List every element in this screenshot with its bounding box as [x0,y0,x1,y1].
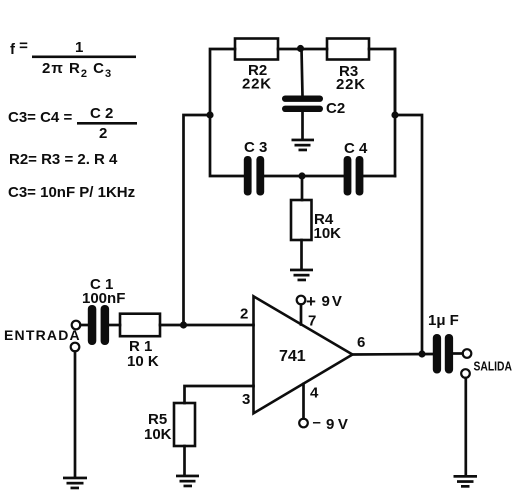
svg-text:741: 741 [279,348,306,365]
svg-text:10K: 10K [144,426,172,443]
ground R5 [176,475,199,488]
wire op-amp output to C5 [353,353,434,356]
resistor R2 [235,39,278,60]
capacitor C3 [244,156,264,196]
pin 4 wire [302,384,305,419]
svg-text:2π R2 C3: 2π R2 C3 [42,60,112,80]
capacitor C4 [344,156,364,196]
svg-text:22K: 22K [242,76,272,93]
wire salida to ground [464,378,467,476]
terminal entrada top [72,321,81,330]
svg-text:4: 4 [310,385,319,402]
terminal +9V [297,296,306,305]
svg-text:1: 1 [75,39,83,56]
terminal entrada bottom [71,343,80,352]
wire C4 to right rail [364,175,396,178]
svg-text:100nF: 100nF [82,290,125,307]
formula f = 1/(2 pi R2 C3) [10,38,136,81]
capacitor C2 [282,96,323,113]
resistor R3 [327,39,369,60]
svg-text:2: 2 [240,306,248,323]
node A junction R2/R3 [297,45,304,52]
node right tee [391,111,398,118]
svg-text:ENTRADA: ENTRADA [4,327,81,343]
wire C5 to salida [453,352,463,355]
wire R1 to op-amp pin 2 [160,324,254,327]
formula C3 = C4 = C2/2 [8,105,137,142]
node C3/C4 middle [298,172,305,179]
wire right vertical between top corner and C4 wire [394,49,397,176]
svg-text:9V: 9V [322,293,344,310]
wire R5 to ground [183,446,186,475]
terminal salida bottom [461,369,470,378]
svg-text:R2= R3 = 2. R 4: R2= R3 = 2. R 4 [9,151,118,168]
ground below C2 [292,139,315,152]
svg-text:C2: C2 [326,100,345,117]
wire R4 to ground [300,240,303,269]
wire node A down to C2 [302,49,303,96]
svg-text:10 K: 10 K [127,353,159,370]
capacitor C5 1uF [433,334,453,374]
svg-text:–: – [313,414,321,431]
svg-text:7: 7 [308,313,316,330]
resistor R4 [291,200,312,240]
svg-text:22K: 22K [336,76,366,93]
wire C1 to R1 [109,324,120,327]
terminal salida top [463,349,472,358]
resistor R5 [174,403,195,446]
wire middle node down to R4 [301,176,304,200]
svg-text:1μ F: 1μ F [428,312,459,329]
op-amp U1 741 triangle [254,296,353,413]
svg-text:SALIDA: SALIDA [474,359,513,374]
wire top-left corner to R2 [210,49,235,115]
wire right tee to feedback rail [395,115,422,354]
capacitor C1 [88,305,109,345]
node input [180,321,187,328]
wire C3 to middle node [264,175,344,178]
wire R3 to top-right corner [369,49,395,115]
node left tee [206,111,213,118]
ground salida [454,475,478,488]
terminal -9V [299,419,308,428]
svg-text:3: 3 [242,391,250,408]
pin 7 wire [300,305,303,325]
svg-text:f =: f = [10,38,28,59]
node output [418,350,425,357]
wire R2 to R3 [278,48,327,51]
wire left tee down and to C3 [210,115,244,176]
wire C2 to ground [301,112,304,139]
svg-text:10K: 10K [314,225,342,242]
svg-text:C 4: C 4 [344,140,368,157]
svg-text:6: 6 [357,334,365,351]
svg-text:+: + [306,292,316,311]
resistor R1 [120,314,160,337]
ground below R4 [290,269,313,282]
svg-text:C3= C4 =: C3= C4 = [8,109,72,126]
svg-text:9V: 9V [326,416,351,433]
wire entrada bottom to ground [74,352,77,478]
svg-text:2: 2 [99,125,107,142]
svg-text:C3= 10nF P/ 1KHz: C3= 10nF P/ 1KHz [8,184,135,201]
wire entrada to C1 [81,324,89,327]
svg-text:C 3: C 3 [244,139,267,156]
wire left tee to left rail [184,115,211,325]
svg-text:C 2: C 2 [90,105,113,122]
ground entrada [63,477,87,490]
wire pin3 from R5 [185,386,254,403]
